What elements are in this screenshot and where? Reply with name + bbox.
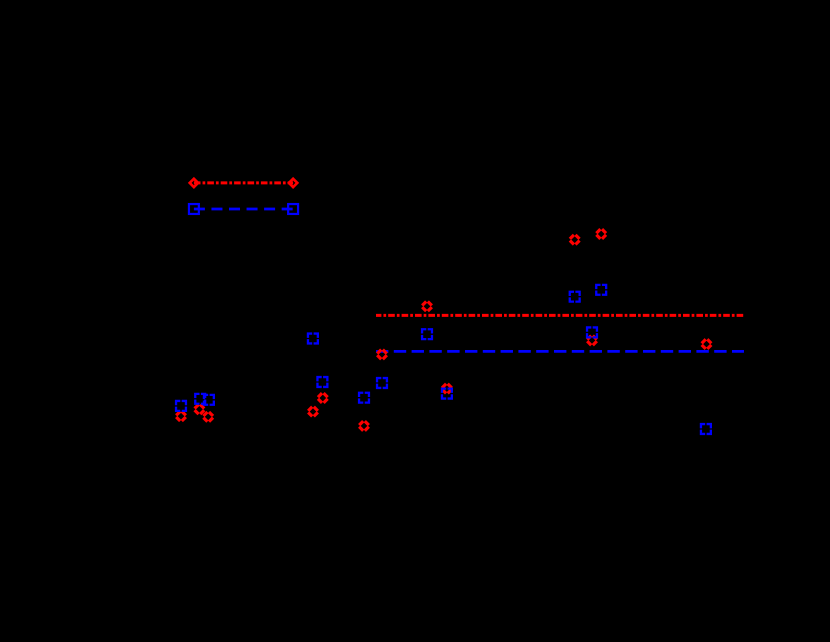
- blue series line: [376, 350, 744, 353]
- red diamond point 12: [587, 336, 597, 346]
- blue square point 11: [442, 389, 452, 399]
- legend blue sample line: [194, 208, 293, 211]
- legend blue square left: [189, 204, 199, 214]
- blue square point 10: [422, 329, 432, 339]
- red diamond point 10: [359, 421, 369, 431]
- legend red sample line: [194, 181, 293, 184]
- red diamond point 5: [308, 407, 318, 417]
- red diamond point 6: [318, 393, 328, 403]
- red diamond point 2: [596, 229, 606, 239]
- blue square point 6: [195, 394, 205, 404]
- blue square point 4: [317, 377, 327, 387]
- blue square point 2: [596, 285, 606, 295]
- blue square point 9: [377, 378, 387, 388]
- blue square point 8: [359, 393, 369, 403]
- blue square point 12: [587, 327, 597, 337]
- legend blue square right: [288, 204, 298, 214]
- blue square point 3: [308, 334, 318, 344]
- red diamond point 1: [570, 235, 580, 245]
- red diamond point 13: [702, 339, 712, 349]
- blue square point 1: [570, 292, 580, 302]
- red diamond point 3: [422, 301, 432, 311]
- red diamond point 9: [203, 412, 213, 422]
- red series line: [376, 314, 744, 317]
- blue square point 5: [176, 401, 186, 411]
- blue square point 13: [701, 424, 711, 434]
- red diamond point 11: [442, 384, 452, 394]
- red diamond point 4: [377, 350, 387, 360]
- blue square point 7: [204, 395, 214, 405]
- legend red diamond right: [287, 177, 299, 189]
- red diamond point 8: [195, 404, 205, 414]
- red diamond point 7: [176, 411, 186, 421]
- legend red diamond left: [188, 177, 200, 189]
